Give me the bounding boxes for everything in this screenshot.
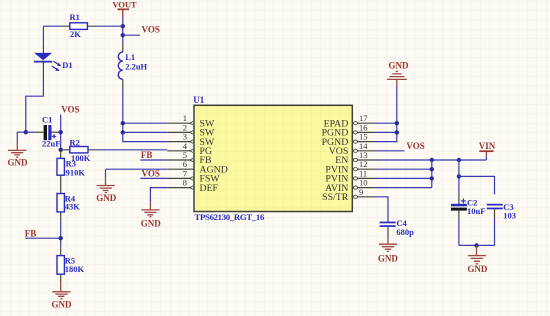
wire SW pin1 bbox=[123, 122, 168, 124]
svg-text:GND: GND bbox=[389, 61, 410, 71]
node rail/GND junction bbox=[474, 243, 478, 247]
wire PVIN vertical bbox=[431, 160, 433, 188]
wire bottom rail bbox=[459, 244, 495, 246]
wire VOS pin14 bbox=[375, 150, 405, 152]
op-amp U1 TPS62130 body bbox=[193, 95, 352, 222]
ground under C4 bbox=[378, 236, 399, 264]
wire PGND pin16 bbox=[375, 131, 397, 133]
wire R1 row bbox=[43, 25, 61, 27]
wire C3 down bbox=[494, 219, 496, 246]
svg-text:VOUT: VOUT bbox=[112, 0, 137, 10]
LED D1 bbox=[34, 44, 73, 78]
wire SS/TR to C4 bbox=[375, 197, 388, 222]
wire FB stub bbox=[25, 237, 60, 239]
wire VOUT vertical bbox=[122, 18, 124, 43]
resistor R2 bbox=[62, 137, 97, 163]
wire PVIN pin11 bbox=[375, 177, 432, 179]
svg-text:GND: GND bbox=[467, 264, 488, 274]
svg-text:9: 9 bbox=[359, 187, 363, 197]
wire C1 row left bbox=[17, 131, 26, 133]
node SW1 junction bbox=[121, 121, 125, 125]
svg-text:SS/TR: SS/TR bbox=[322, 192, 349, 203]
svg-text:L1: L1 bbox=[125, 52, 135, 62]
svg-text:FB: FB bbox=[141, 150, 153, 160]
wire R4 to FB node bbox=[60, 212, 62, 221]
svg-text:2.2uH: 2.2uH bbox=[125, 62, 147, 72]
svg-text:U1: U1 bbox=[193, 95, 204, 105]
wire DEF pin8 bbox=[150, 188, 167, 203]
inductor L1 bbox=[118, 43, 147, 89]
wire R3 to R4 bbox=[60, 175, 62, 193]
svg-text:FB: FB bbox=[25, 229, 37, 239]
svg-text:TPS62130_RGT_16: TPS62130_RGT_16 bbox=[195, 212, 265, 222]
resistor R4 bbox=[57, 193, 80, 212]
power port VOUT bbox=[112, 0, 137, 18]
wire branch to C3 bbox=[459, 176, 495, 194]
pin 12 PVIN bbox=[325, 159, 374, 175]
svg-text:DEF: DEF bbox=[200, 183, 219, 194]
pin 1 SW bbox=[167, 113, 215, 129]
svg-text:R2: R2 bbox=[70, 137, 80, 147]
wire EPAD pin17 bbox=[375, 122, 397, 124]
svg-text:VOS: VOS bbox=[406, 141, 424, 151]
pin 4 PG bbox=[167, 141, 212, 157]
node PVIN11 junction bbox=[430, 176, 434, 180]
svg-text:180K: 180K bbox=[65, 264, 85, 274]
power port VIN bbox=[479, 141, 496, 160]
node VOUT/R1 junction bbox=[121, 24, 125, 28]
node EN/PVIN junction bbox=[430, 158, 434, 162]
wire R2 to pin4 bbox=[97, 149, 168, 151]
svg-text:22uF: 22uF bbox=[42, 139, 60, 149]
wire VOS rail bbox=[60, 115, 62, 151]
wire AGND pin6 bbox=[106, 168, 168, 170]
ground at AGND bbox=[96, 169, 117, 203]
node C1 left junction bbox=[24, 130, 28, 134]
wire to VOS label bbox=[123, 34, 140, 36]
pin 16 PGND bbox=[322, 122, 375, 138]
svg-text:VOS: VOS bbox=[142, 168, 160, 178]
pin 7 FSW bbox=[167, 168, 220, 184]
wire AVIN pin10 bbox=[375, 187, 432, 189]
pin 14 VOS bbox=[329, 141, 375, 157]
wire EN to C2 vertical bbox=[458, 160, 460, 194]
ground under C2 C3 bbox=[467, 245, 488, 273]
svg-text:910K: 910K bbox=[66, 167, 86, 177]
svg-text:C1: C1 bbox=[42, 115, 52, 125]
node FB junction bbox=[59, 236, 63, 240]
wire GND to PGND pins bbox=[375, 86, 397, 142]
resistor R1 bbox=[61, 12, 97, 39]
pin 10 AVIN bbox=[325, 178, 375, 194]
pin 15 PGND bbox=[322, 132, 375, 148]
pin 8 DEF bbox=[167, 178, 218, 194]
svg-text:8: 8 bbox=[183, 178, 187, 188]
node rail/C1 junction bbox=[59, 130, 63, 134]
pin 17 EPAD bbox=[324, 113, 375, 129]
pin 13 EN bbox=[335, 150, 374, 166]
svg-text:GND: GND bbox=[52, 299, 73, 309]
capacitor C1 bbox=[26, 115, 61, 149]
node SW2 junction bbox=[121, 130, 125, 134]
pin 3 SW bbox=[167, 132, 215, 148]
pin 5 FB bbox=[167, 150, 212, 166]
net label FB (pin5) bbox=[140, 150, 167, 160]
svg-text:GND: GND bbox=[378, 254, 399, 264]
svg-text:GND: GND bbox=[141, 219, 162, 229]
svg-text:680p: 680p bbox=[396, 227, 414, 237]
pin 11 PVIN bbox=[325, 168, 374, 184]
resistor R3 bbox=[57, 150, 85, 177]
wire down to LED bbox=[42, 26, 44, 43]
node PGND16 junction bbox=[395, 130, 399, 134]
svg-text:2K: 2K bbox=[70, 29, 81, 39]
wire EN pin13 to VIN bbox=[375, 159, 487, 161]
node PVIN12 junction bbox=[430, 167, 434, 171]
svg-text:VOS: VOS bbox=[61, 104, 79, 114]
node EN/C2 junction bbox=[457, 158, 461, 162]
ground at DEF bbox=[141, 202, 162, 228]
svg-text:D1: D1 bbox=[62, 60, 72, 70]
ground top right bbox=[387, 61, 409, 86]
node rail/R2 junction bbox=[59, 148, 63, 152]
net label VOS (pin7) bbox=[140, 168, 167, 178]
resistor R5 bbox=[57, 246, 85, 274]
svg-text:R1: R1 bbox=[70, 12, 80, 22]
svg-text:GND: GND bbox=[96, 193, 117, 203]
svg-text:VOS: VOS bbox=[142, 25, 160, 35]
wire PVIN pin12 bbox=[375, 168, 432, 170]
wire SW pin2 bbox=[123, 131, 168, 133]
node C2/C3 branch junction bbox=[457, 174, 461, 178]
pin 6 AGND bbox=[167, 159, 228, 175]
svg-text:GND: GND bbox=[8, 158, 29, 168]
node PGND17 junction bbox=[395, 121, 399, 125]
svg-text:10uF: 10uF bbox=[467, 206, 485, 216]
svg-text:VIN: VIN bbox=[479, 141, 496, 151]
capacitor C3 bbox=[487, 202, 516, 221]
pin 2 SW bbox=[167, 122, 215, 138]
ground under C1 bbox=[8, 132, 29, 167]
ground under R5 bbox=[52, 274, 73, 309]
wire LED to C1 node bbox=[26, 78, 44, 133]
pin 9 SS/TR bbox=[322, 187, 374, 203]
node VOS branch junction bbox=[121, 33, 125, 37]
capacitor C4 bbox=[380, 218, 415, 237]
capacitor C2 bbox=[451, 194, 486, 219]
svg-text:43K: 43K bbox=[65, 202, 81, 212]
wire L1 to SW pins bbox=[123, 89, 168, 142]
svg-text:103: 103 bbox=[503, 211, 516, 221]
wire C2 down bbox=[458, 220, 460, 246]
